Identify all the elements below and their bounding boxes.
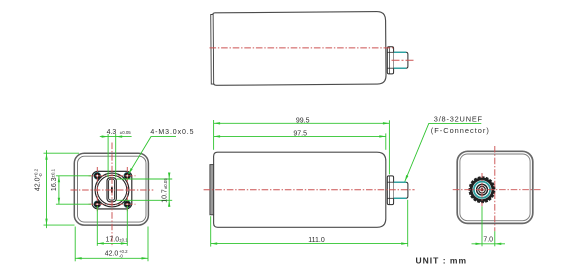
- right view F-connector knurled ring: [469, 177, 495, 203]
- svg-text:99.5: 99.5: [296, 118, 310, 125]
- svg-text:3/8-32UNEF: 3/8-32UNEF: [434, 115, 483, 124]
- side view centerline: [204, 189, 415, 191]
- top view left bezel strip: [211, 14, 214, 84]
- side view connector flange: [387, 176, 393, 205]
- right view centerlines: [453, 146, 541, 231]
- dimension 42.0 left: [33, 150, 79, 228]
- side view left bezel strip: [210, 165, 214, 215]
- front view connector circles: [95, 173, 129, 207]
- front view red centerlines (holes): [89, 167, 136, 213]
- svg-text:111.0: 111.0: [308, 237, 325, 244]
- leader 3/8-32UNEF: [405, 115, 490, 182]
- front view center pin: [111, 187, 113, 192]
- dimension 97.5: [214, 130, 386, 150]
- front view mounting plate: [92, 171, 132, 209]
- svg-text:±0.05: ±0.05: [120, 130, 132, 135]
- top view connector flange: [387, 47, 393, 74]
- dimension 111.0: [211, 200, 408, 247]
- right view F-connector inner rings: [477, 184, 488, 195]
- svg-text:UNIT : mm: UNIT : mm: [416, 256, 468, 266]
- top view body: [213, 12, 386, 86]
- right view inner outline: [460, 154, 530, 221]
- front view slot inner: [109, 179, 115, 200]
- svg-text:7.0: 7.0: [483, 237, 493, 244]
- top view connector barrel (threaded, teal): [394, 52, 408, 68]
- svg-text:-0: -0: [119, 254, 123, 259]
- side view connector barrel (threaded, teal): [394, 182, 408, 198]
- front view slot outer: [107, 178, 116, 202]
- front view main centerlines: [71, 143, 154, 248]
- dimension 99.5: [214, 118, 390, 175]
- front view mounting holes M3: [94, 173, 130, 208]
- right view F-connector teal ring: [474, 182, 490, 198]
- svg-text:±0.1: ±0.1: [119, 237, 128, 242]
- dimension 7.0: [472, 206, 506, 246]
- dimension 4.3: [100, 129, 132, 178]
- top view connector centerline: [392, 59, 415, 61]
- right view outer square: [457, 151, 533, 223]
- front view outer square: [74, 153, 148, 225]
- dimension 10.7: [117, 173, 173, 207]
- svg-text:(F-Connector): (F-Connector): [431, 126, 490, 135]
- side view body: [214, 152, 386, 227]
- svg-text:17.0: 17.0: [106, 236, 120, 243]
- top view centerline: [210, 47, 395, 49]
- svg-text:10.7±0.05: 10.7±0.05: [161, 178, 168, 203]
- note UNIT : mm: [416, 256, 468, 266]
- svg-text:4-M3.0x0.5: 4-M3.0x0.5: [150, 129, 194, 136]
- svg-text:97.5: 97.5: [293, 130, 307, 137]
- leader 4-M3.0x0.5: [128, 129, 194, 174]
- svg-text:42.0: 42.0: [105, 250, 119, 257]
- dimension 42.0 bottom: [75, 227, 148, 262]
- front view inner outline: [78, 156, 147, 222]
- svg-text:4.3: 4.3: [107, 129, 117, 136]
- dimension 17.0: [97, 206, 128, 246]
- dimension 16.3: [50, 168, 91, 204]
